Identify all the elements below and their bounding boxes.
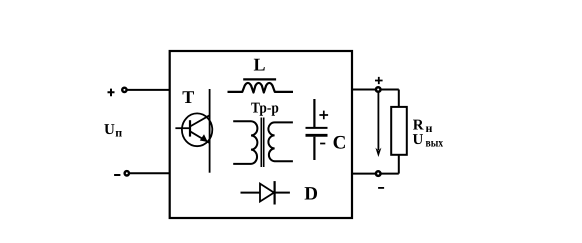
capacitor C polarity - [320,143,325,145]
node output + junction [376,87,381,92]
resistor Rn load [391,90,407,174]
svg-text:C: C [333,132,347,153]
label + output polarity [375,77,383,84]
label - output polarity [378,187,384,189]
capacitor C [306,99,328,160]
label Uvyh output voltage [413,132,444,149]
inductor L [228,79,294,92]
transformer secondary winding [268,122,293,161]
capacitor C polarity + [319,111,328,120]
wire input + to box [127,89,170,91]
transformer core [261,118,263,168]
wire output + from box to load [352,89,399,91]
arrow Uvyh voltage direction [375,92,381,157]
svg-text:U: U [413,132,424,148]
svg-text:н: н [426,121,433,135]
node - input terminal [114,171,129,175]
svg-text:T: T [182,87,194,107]
wire output - from box to load [352,173,399,175]
transformer primary winding [233,121,257,164]
converter block box [170,51,352,218]
svg-text:Тр-р: Тр-р [251,100,279,116]
wire input - to box [130,172,170,174]
svg-text:D: D [304,184,318,205]
svg-text:вых: вых [426,135,444,149]
node + input terminal [108,88,127,96]
node output - junction [376,171,381,176]
label Un supply voltage [104,122,122,140]
svg-text:U: U [104,122,115,138]
transistor Q body [175,89,212,173]
svg-text:L: L [254,54,266,74]
diode D [241,181,290,204]
label Rn load resistance [413,118,433,135]
svg-text:п: п [115,126,122,140]
